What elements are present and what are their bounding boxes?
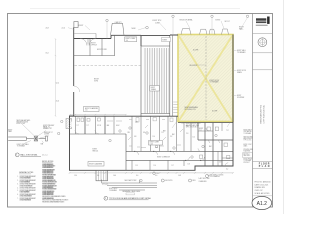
detail 1 title	[15, 153, 47, 157]
svg-text:24-8: 24-8	[46, 28, 49, 30]
music room boxed tag	[150, 86, 160, 92]
scan artifact right edge	[283, 0, 285, 214]
svg-text:EXIST LOBBY: EXIST LOBBY	[126, 38, 136, 40]
svg-text:PROJ NO: AMCB210: PROJ NO: AMCB210	[255, 181, 271, 184]
lower partitions under corridor	[132, 160, 184, 170]
right block door arcs	[198, 128, 228, 166]
svg-text:EXIST CORRIDOR: EXIST CORRIDOR	[157, 157, 171, 159]
bottom band top wall	[70, 115, 179, 117]
music room walls	[141, 36, 170, 116]
svg-text:SPEC SECTION 07: SPEC SECTION 07	[186, 126, 199, 128]
keynote circle top	[138, 26, 148, 30]
corridor walls	[126, 151, 233, 160]
bottom dimension string	[69, 172, 234, 174]
detail 2 texts	[109, 179, 140, 193]
title block divider line 4	[253, 69, 273, 71]
svg-text:12-0: 12-0	[74, 175, 77, 177]
grid bubble A	[106, 19, 108, 38]
right margin keyed note blocks lower	[244, 130, 254, 164]
east block tags	[149, 141, 163, 146]
grid bubble D	[240, 15, 249, 30]
sheet number oval A1.2	[252, 196, 272, 209]
project title rotated text	[259, 104, 265, 123]
svg-text:110: 110	[153, 136, 155, 138]
svg-text:GYM: GYM	[94, 81, 98, 83]
corridor interior marks	[129, 118, 181, 148]
svg-text:100: 100	[126, 40, 129, 42]
title block divider	[252, 14, 254, 208]
east strip room texts	[128, 132, 195, 139]
svg-text:TLT: TLT	[199, 130, 202, 132]
detail 2 title	[104, 196, 151, 200]
svg-text:SEE SPEC: SEE SPEC	[244, 155, 251, 157]
door jambs	[134, 151, 201, 161]
sheet frame	[8, 14, 273, 208]
svg-text:EXIST CORR: EXIST CORR	[97, 49, 108, 51]
svg-text:RE-ROOF AREA: RE-ROOF AREA	[180, 19, 194, 22]
svg-text:OFFICE: OFFICE	[91, 44, 97, 46]
svg-text:KEYNOTE: KEYNOTE	[165, 180, 172, 182]
corridor door arcs	[135, 140, 210, 160]
svg-text:CHKD: DP: CHKD: DP	[255, 190, 264, 192]
detail 2 hatch	[102, 183, 108, 185]
logo GMC bars	[256, 17, 270, 24]
svg-text:EXIST JOINT: EXIST JOINT	[17, 123, 26, 125]
gym door on left wall	[73, 86, 80, 92]
svg-text:22-4: 22-4	[62, 27, 65, 29]
svg-text:1/2 = 1-0: 1/2 = 1-0	[42, 154, 48, 156]
yellow area labels	[185, 50, 220, 113]
sheet title box	[253, 160, 273, 162]
svg-text:EXIST: EXIST	[237, 95, 241, 97]
vestibule canopy bump	[111, 23, 125, 35]
svg-text:EXIST: EXIST	[216, 19, 221, 21]
right block fixtures	[200, 127, 230, 159]
svg-text:9-0: 9-0	[155, 175, 157, 177]
svg-text:20-6: 20-6	[56, 100, 59, 102]
svg-text:118: 118	[188, 163, 190, 165]
svg-text:A1.2: A1.2	[257, 201, 268, 207]
svg-text:DATE: 03.22.2021: DATE: 03.22.2021	[255, 183, 269, 186]
stair ladder rungs in corridor	[173, 102, 177, 112]
svg-text:C100: C100	[150, 144, 154, 146]
lower room numbers	[136, 162, 222, 168]
yellow area roof ridge dashed line	[205, 36, 207, 120]
exterior wall right/bottom	[70, 35, 234, 171]
svg-text:TLT: TLT	[226, 130, 229, 132]
svg-text:6-2: 6-2	[226, 168, 228, 170]
svg-text:EXIST CORR: EXIST CORR	[150, 142, 160, 144]
svg-text:18-2: 18-2	[46, 53, 49, 55]
svg-text:SCUPPER: SCUPPER	[237, 97, 245, 99]
legend keynote items	[153, 172, 210, 183]
svg-text:EXIST: EXIST	[163, 39, 168, 41]
svg-text:108: 108	[134, 136, 137, 138]
left dimension line	[55, 39, 57, 117]
svg-text:114: 114	[193, 137, 195, 139]
svg-text:STOR: STOR	[97, 125, 101, 127]
svg-text:113: 113	[186, 133, 188, 135]
svg-text:NEW: NEW	[132, 28, 136, 30]
svg-text:SKYLT: SKYLT	[225, 21, 230, 23]
grid bubble C	[211, 15, 213, 34]
scattered keynote circles	[58, 120, 218, 181]
svg-text:EXIST: EXIST	[79, 25, 84, 27]
keyed note text block under yellow	[186, 123, 201, 128]
title block divider line 2	[253, 33, 273, 35]
svg-text:SCALE: AS NOTED: SCALE: AS NOTED	[255, 192, 271, 195]
svg-text:ROOFING SYS: ROOFING SYS	[185, 109, 196, 111]
left stoop with hatch	[66, 119, 73, 129]
svg-text:EXIST ROOF: EXIST ROOF	[237, 70, 246, 72]
svg-text:8-4: 8-4	[97, 175, 99, 177]
wall under small rooms	[70, 133, 127, 135]
east rooms partitions	[132, 116, 191, 151]
svg-text:TLT: TLT	[77, 125, 80, 127]
svg-text:COVER: COVER	[44, 133, 49, 135]
svg-text:CITY SCHOOLS AL: CITY SCHOOLS AL	[263, 104, 266, 123]
svg-text:EXIST: EXIST	[151, 87, 155, 89]
svg-text:62-4: 62-4	[56, 82, 59, 84]
svg-text:101: 101	[156, 173, 159, 175]
svg-text:EXIST: EXIST	[93, 149, 98, 151]
detail 1 wall plan segment	[8, 137, 45, 140]
svg-text:117: 117	[172, 165, 174, 167]
svg-text:RENOVATION PH 2: RENOVATION PH 2	[259, 104, 262, 123]
svg-text:TLT: TLT	[87, 125, 90, 127]
svg-text:111: 111	[162, 132, 164, 134]
svg-text:DRAWN: MW: DRAWN: MW	[255, 186, 266, 189]
gym room label	[94, 79, 99, 83]
right margin leader labels	[237, 49, 246, 99]
svg-text:119: 119	[219, 162, 221, 164]
detail 1 joint assembly	[34, 136, 37, 142]
misc room marks	[128, 120, 189, 148]
general notes column	[17, 171, 36, 201]
scan artifact faint top line	[30, 8, 240, 10]
title block issue text lines	[255, 181, 271, 195]
left dimension texts	[46, 28, 60, 103]
svg-text:101: 101	[85, 110, 88, 112]
storefront mullion	[88, 34, 96, 45]
svg-text:9-0: 9-0	[136, 175, 138, 177]
yellow highlighted renovation area	[178, 35, 233, 122]
exist boxed tag upper	[162, 38, 171, 42]
svg-text:SLOPE: SLOPE	[212, 111, 217, 113]
svg-text:109: 109	[143, 132, 146, 134]
corridor wall beside music room	[172, 35, 174, 116]
exterior wall top-left segment	[74, 27, 178, 116]
svg-text:10-8: 10-8	[178, 175, 181, 177]
closet shelves and door arcs row1	[75, 121, 122, 134]
title block divider line 3	[253, 52, 273, 54]
detail 1 leader lines	[22, 124, 49, 144]
skylight curbs on top wall	[181, 29, 229, 35]
bottom stair protrusion	[96, 170, 108, 181]
gym room dashed ceiling line	[75, 65, 141, 67]
boxed tag lower west	[88, 162, 104, 167]
svg-text:SEE STRUCT DWGS: SEE STRUCT DWGS	[210, 174, 224, 176]
svg-text:PROTECT: PROTECT	[244, 162, 251, 164]
svg-text:ELEC: ELEC	[116, 125, 120, 127]
canopy boxed label	[125, 37, 137, 42]
room west block labels	[93, 149, 99, 153]
svg-text:115: 115	[136, 165, 138, 167]
top leader lines	[68, 21, 224, 30]
leaders from yellow corner	[172, 123, 230, 129]
top band dimension texts	[62, 19, 244, 31]
detail 1 text blocks	[8, 119, 54, 148]
svg-text:116: 116	[154, 165, 156, 167]
logo tagline text	[256, 25, 268, 26]
svg-text:TYP ROOF EDGE AND EXPANSION JO: TYP ROOF EDGE AND EXPANSION JOINT DETAIL	[109, 197, 151, 200]
roof access box top-left	[74, 22, 78, 28]
entry canopy line	[74, 33, 96, 35]
keyed notes column	[42, 161, 68, 204]
gym boxed room tag	[84, 107, 100, 112]
svg-text:EXIST: EXIST	[199, 128, 203, 130]
right block partitions	[198, 123, 233, 167]
dimension ticks above bottom band wall	[69, 114, 126, 115]
bottom right keynote	[206, 174, 224, 178]
small rooms partitions row1	[75, 116, 114, 134]
detail 2 section lines	[102, 180, 157, 191]
wall x126	[125, 134, 127, 170]
entry door arcs	[80, 39, 96, 46]
architect stamp seal	[258, 38, 267, 47]
svg-text:SLOPE: SLOPE	[193, 50, 198, 52]
svg-text:CANOPY: CANOPY	[115, 21, 123, 24]
svg-text:EXIST: EXIST	[91, 43, 96, 45]
svg-text:112: 112	[170, 136, 172, 138]
bottom dimension texts	[74, 168, 228, 177]
small room texts row1	[77, 124, 120, 127]
wall under yellow area	[178, 122, 233, 124]
interior wall top-left offices	[74, 35, 115, 55]
svg-text:WALL JOINT DETAIL: WALL JOINT DETAIL	[20, 153, 37, 156]
svg-text:WALL: WALL	[239, 27, 244, 30]
svg-text:EXIST ROOF: EXIST ROOF	[210, 80, 220, 82]
office labels	[91, 43, 108, 52]
svg-text:14-6: 14-6	[113, 175, 116, 177]
grid bubble B	[172, 15, 174, 35]
toilet fixtures row1	[77, 118, 100, 121]
svg-text:RM 104: RM 104	[93, 150, 99, 152]
svg-text:REV: REV	[193, 180, 196, 182]
svg-text:TYP 4 LOCS: TYP 4 LOCS	[244, 140, 252, 142]
music room riser stripes	[143, 48, 169, 114]
